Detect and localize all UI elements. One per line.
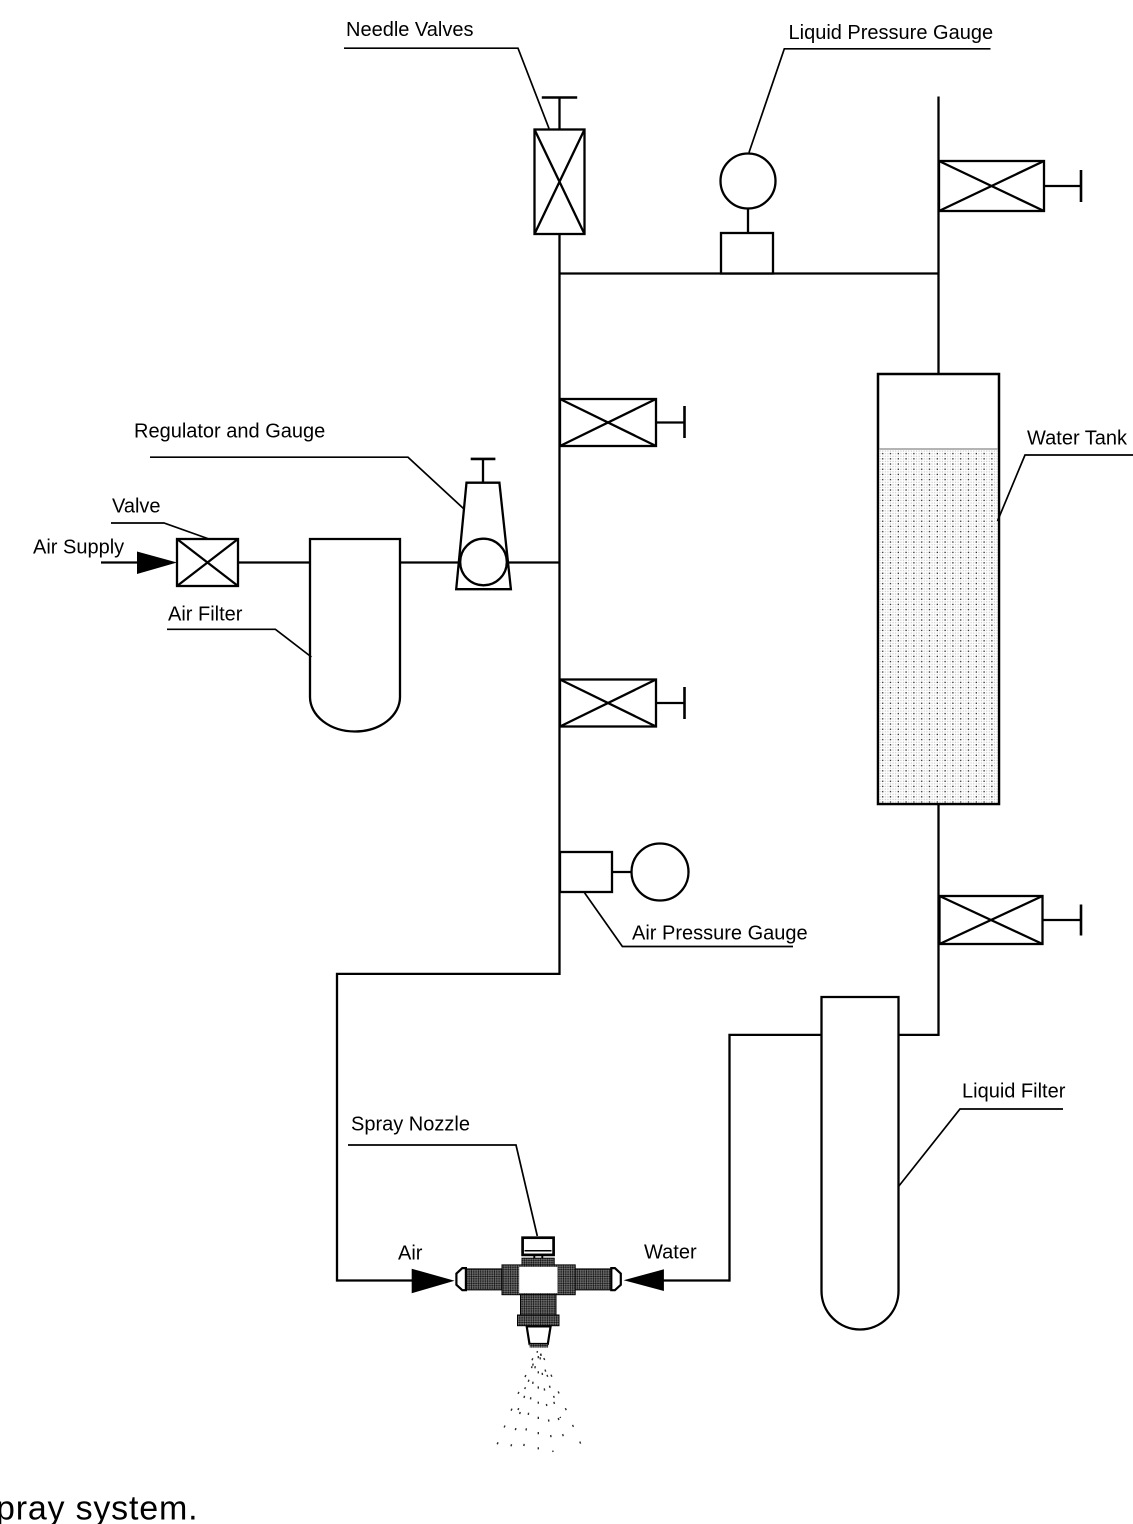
- liquid filter: [822, 997, 899, 1330]
- valve: upper center: [560, 399, 685, 446]
- spray nozzle: left end cap: [456, 1268, 466, 1290]
- wire: regulator to center column: [508, 561, 560, 563]
- label: Liquid Pressure Gauge: [749, 22, 993, 153]
- spray nozzle: right arm: [575, 1269, 611, 1290]
- wire: top header line: [560, 272, 939, 274]
- svg-text:Regulator and Gauge: Regulator and Gauge: [134, 421, 325, 443]
- spray nozzle: top cap: [523, 1238, 554, 1260]
- wire: air filter to regulator: [399, 561, 460, 563]
- label: Valve: [111, 496, 209, 540]
- svg-text:Needle Valves: Needle Valves: [346, 19, 473, 41]
- label: Needle Valves: [344, 19, 549, 129]
- svg-text:Air Filter: Air Filter: [168, 604, 243, 626]
- wire: water run to filter: [730, 1035, 939, 1282]
- water arrow: [624, 1269, 664, 1291]
- air arrow: [412, 1269, 455, 1294]
- wire: center air column: [558, 231, 560, 975]
- spray nozzle: center body: [502, 1265, 575, 1295]
- label: Air Pressure Gauge: [584, 892, 808, 947]
- svg-text:Water Tank: Water Tank: [1027, 428, 1128, 450]
- svg-text:Liquid Pressure Gauge: Liquid Pressure Gauge: [789, 22, 994, 44]
- air supply arrow: [137, 552, 177, 575]
- svg-text:Valve: Valve: [112, 496, 161, 518]
- svg-text:pray system.: pray system.: [0, 1490, 198, 1524]
- spray nozzle: tip: [527, 1326, 551, 1347]
- svg-text:Liquid Filter: Liquid Filter: [962, 1081, 1066, 1103]
- svg-text:Spray Nozzle: Spray Nozzle: [351, 1114, 470, 1136]
- label: Water: [644, 1242, 697, 1264]
- caption: pray system.: [0, 1490, 198, 1524]
- svg-text:Air Supply: Air Supply: [33, 537, 124, 559]
- regulator and gauge: [456, 459, 511, 589]
- wire: bottom air run: [337, 974, 560, 1282]
- air filter: [310, 539, 400, 732]
- label: Regulator and Gauge: [134, 421, 464, 510]
- wire: right liquid column: [937, 97, 939, 1037]
- valve: lower center: [560, 680, 685, 727]
- spray nozzle: lower block: [518, 1295, 560, 1326]
- spray nozzle: top hatched block: [522, 1258, 554, 1266]
- svg-text:Air: Air: [398, 1243, 423, 1265]
- needle valve: [535, 130, 585, 235]
- wire: water feed to nozzle: [662, 1279, 730, 1281]
- water tank: [878, 374, 999, 804]
- valve: right below tank: [940, 896, 1082, 944]
- wire: air supply inlet: [101, 561, 140, 563]
- label: Spray Nozzle: [348, 1114, 537, 1237]
- label: Air: [398, 1243, 423, 1265]
- liquid pressure gauge: [721, 154, 776, 274]
- valve: top right: [939, 161, 1081, 211]
- air pressure gauge: [560, 844, 689, 901]
- needle valve stem: [542, 98, 577, 132]
- label: Air Supply: [33, 537, 124, 559]
- valve: air supply: [177, 539, 238, 586]
- wire: air feed to nozzle: [337, 1279, 414, 1281]
- wire: valve to air filter: [238, 561, 311, 563]
- spray nozzle: left arm: [466, 1269, 502, 1290]
- label: Water Tank: [998, 428, 1133, 522]
- spray: [497, 1351, 583, 1453]
- svg-text:Air Pressure Gauge: Air Pressure Gauge: [632, 923, 808, 945]
- label: Liquid Filter: [899, 1081, 1066, 1187]
- svg-text:Water: Water: [644, 1242, 697, 1264]
- spray nozzle: right end cap: [611, 1268, 621, 1290]
- label: Air Filter: [167, 604, 311, 658]
